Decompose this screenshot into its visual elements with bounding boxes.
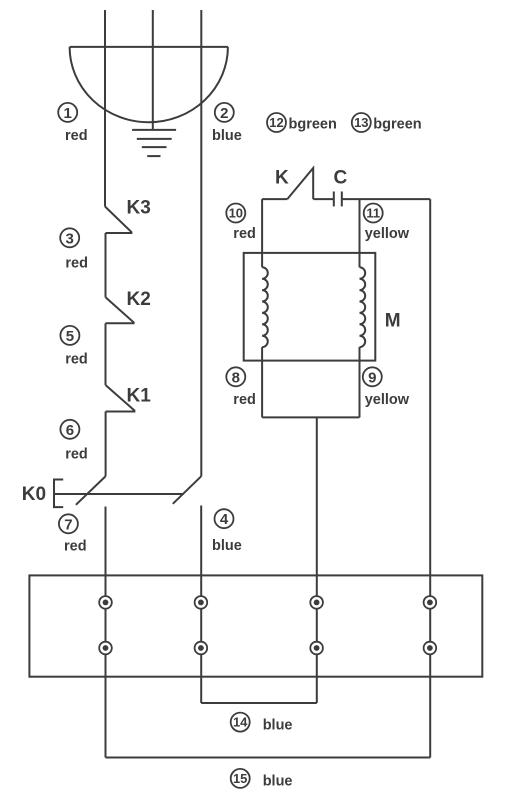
svg-text:9: 9 — [368, 369, 376, 386]
svg-text:3: 3 — [66, 230, 74, 247]
svg-text:M: M — [385, 311, 401, 332]
lamp bowl arc — [70, 47, 228, 122]
switch K blade — [287, 168, 313, 199]
svg-text:blue: blue — [263, 774, 293, 790]
svg-text:C: C — [334, 168, 348, 189]
svg-text:11: 11 — [366, 206, 380, 221]
svg-text:5: 5 — [66, 328, 74, 345]
ground — [132, 130, 176, 156]
svg-text:1: 1 — [64, 105, 72, 122]
motor left lead lower — [261, 347, 263, 417]
node 10 — [226, 204, 245, 223]
svg-text:red: red — [65, 256, 88, 272]
terminal strip box — [29, 575, 482, 676]
terminal t4a — [424, 596, 437, 609]
wire column 1 lower — [105, 507, 107, 758]
motor right lead upper — [359, 199, 361, 267]
lamp chord — [70, 46, 228, 48]
switch K0 right blade — [173, 476, 202, 504]
motor bottom wire — [262, 416, 359, 418]
terminal t2a — [195, 596, 208, 609]
svg-text:blue: blue — [212, 538, 242, 554]
svg-text:red: red — [65, 446, 88, 462]
svg-text:2: 2 — [220, 105, 228, 122]
wire L3 right — [200, 10, 202, 476]
switch K2 — [106, 297, 134, 323]
node 9 — [363, 367, 382, 386]
svg-text:bgreen: bgreen — [289, 116, 337, 132]
svg-text:7: 7 — [64, 516, 72, 533]
switch K3 — [105, 207, 131, 234]
svg-text:6: 6 — [66, 422, 74, 439]
svg-text:10: 10 — [229, 206, 243, 221]
svg-text:4: 4 — [220, 511, 229, 528]
terminal t1a — [99, 596, 112, 609]
svg-text:bgreen: bgreen — [373, 116, 421, 132]
svg-text:red: red — [65, 128, 88, 144]
terminal t3b — [310, 642, 323, 655]
node 14 — [231, 713, 250, 732]
node 5 — [60, 326, 79, 345]
K0 linkage bar — [54, 493, 184, 495]
svg-text:13: 13 — [354, 115, 368, 130]
node 4 — [215, 509, 234, 528]
wire column 3 — [316, 417, 318, 703]
svg-text:K: K — [275, 168, 289, 189]
node 13 — [352, 113, 371, 132]
svg-text:K0: K0 — [22, 484, 46, 505]
svg-text:yellow: yellow — [365, 226, 410, 242]
wire — [105, 233, 107, 297]
wire K contact left — [262, 198, 287, 200]
motor left winding — [262, 267, 268, 347]
svg-text:blue: blue — [212, 128, 242, 144]
node 8 — [226, 367, 245, 386]
svg-text:15: 15 — [233, 771, 247, 786]
svg-text:red: red — [233, 392, 256, 408]
switch K1 — [106, 385, 135, 412]
node 3 — [60, 228, 79, 247]
node 11 — [364, 204, 383, 223]
svg-text:blue: blue — [263, 718, 293, 734]
node 15 — [231, 769, 250, 788]
wire L2 middle — [152, 10, 154, 130]
svg-text:K1: K1 — [127, 385, 152, 406]
node 6 — [60, 420, 79, 439]
svg-text:red: red — [65, 351, 88, 367]
terminal t2b — [195, 642, 208, 655]
svg-text:yellow: yellow — [365, 392, 410, 408]
terminal t4b — [424, 642, 437, 655]
motor right lead lower — [359, 347, 361, 417]
K0 actuator bracket — [54, 480, 63, 508]
wire column 2 lower — [200, 506, 202, 704]
wire loop 14 — [201, 702, 317, 704]
node 1 — [58, 103, 77, 122]
svg-text:12: 12 — [269, 115, 283, 130]
svg-text:red: red — [64, 539, 87, 555]
wire K to C — [313, 198, 334, 200]
wire L1 top — [104, 10, 106, 207]
wire C to right — [342, 198, 430, 200]
wire — [105, 412, 107, 477]
svg-text:8: 8 — [232, 369, 240, 386]
capacitor C right plate — [341, 192, 343, 207]
wire loop 15 — [106, 757, 431, 759]
node 7 — [59, 514, 78, 533]
wire — [105, 323, 107, 385]
terminal t3a — [310, 596, 323, 609]
wire column 4 — [429, 199, 431, 757]
motor left lead upper — [261, 199, 263, 267]
svg-text:K2: K2 — [127, 289, 151, 310]
svg-text:red: red — [233, 226, 256, 242]
capacitor C left plate — [333, 192, 335, 207]
node 12 — [267, 113, 286, 132]
svg-text:14: 14 — [233, 715, 248, 730]
motor right winding — [360, 267, 366, 347]
svg-text:K3: K3 — [127, 197, 151, 218]
switch K0 left blade — [76, 476, 106, 505]
node 2 — [215, 103, 234, 122]
motor M frame — [244, 253, 376, 361]
terminal t1b — [99, 642, 112, 655]
